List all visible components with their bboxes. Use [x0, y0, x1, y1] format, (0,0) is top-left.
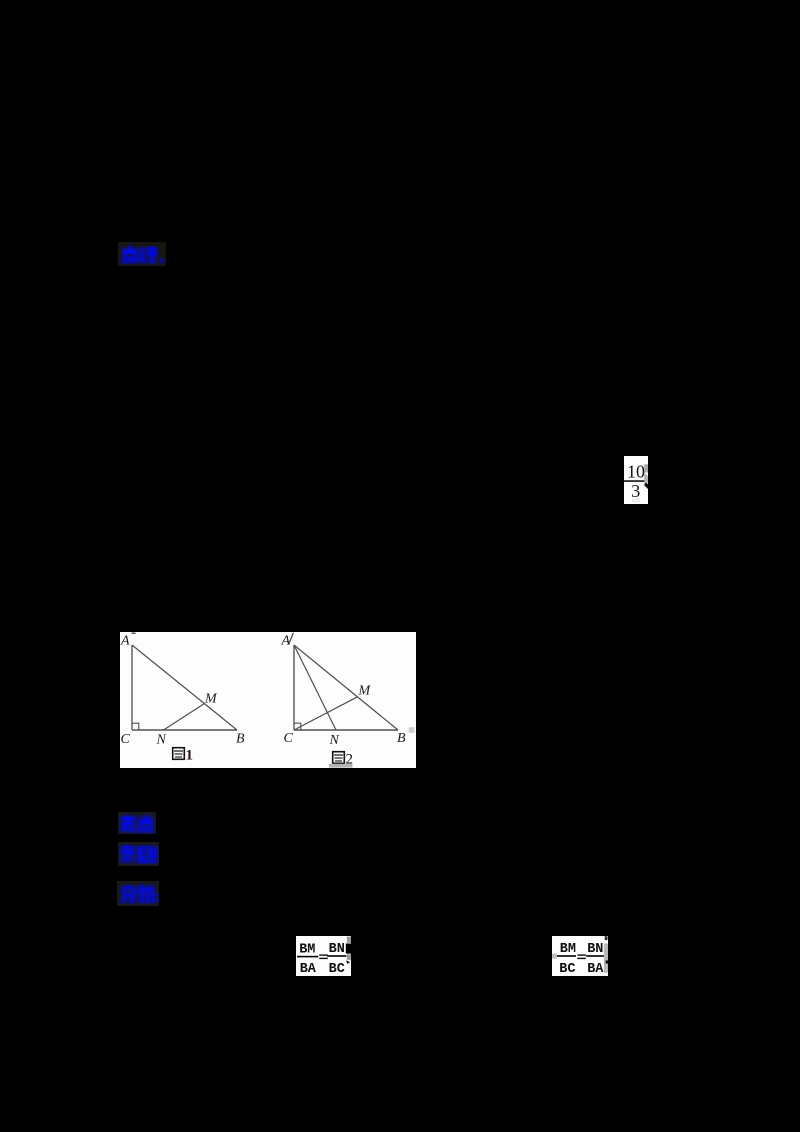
fig2 caption 图2	[333, 752, 353, 768]
fig2 hypotenuse AB	[294, 645, 398, 730]
svg-text:M: M	[358, 684, 372, 699]
svg-text:10: 10	[627, 462, 645, 482]
edge artifacts	[347, 937, 351, 943]
fraction bar left	[297, 956, 318, 958]
fig1 stray tick at top	[132, 632, 136, 634]
fig1 caption 图1	[173, 748, 193, 764]
fig1 side AC	[131, 645, 133, 730]
svg-text:N: N	[329, 733, 340, 748]
svg-text:BC: BC	[329, 962, 345, 976]
svg-text:B: B	[397, 731, 406, 746]
fraction bar right	[327, 955, 346, 957]
svg-text:3: 3	[631, 481, 640, 501]
blue label 专题	[118, 842, 159, 866]
svg-text:C: C	[284, 731, 294, 746]
svg-text:A: A	[281, 634, 291, 649]
svg-text:BA: BA	[587, 962, 604, 976]
faint artifact	[632, 498, 640, 502]
equals sign	[577, 954, 586, 955]
fig2 gray square right of B	[409, 727, 415, 733]
inline equation image: fraction 10/3	[624, 456, 648, 504]
svg-text:BM: BM	[299, 943, 315, 958]
fraction bar left	[557, 955, 576, 957]
fig1 hypotenuse AB	[132, 645, 237, 730]
svg-text:BA: BA	[300, 962, 317, 976]
svg-text:BM: BM	[560, 942, 576, 957]
blue label 分析：	[117, 881, 159, 906]
equation image: BM/BA = BN/BC	[296, 936, 351, 976]
fig2 side AC	[293, 645, 295, 730]
svg-text:M: M	[204, 692, 218, 707]
svg-text:N: N	[156, 733, 167, 748]
fig2 cevian CM	[294, 697, 358, 730]
blue label "点评：" (previous problem footer)	[118, 242, 166, 266]
fig1 side CB	[132, 729, 237, 731]
fig1 segment NM	[164, 704, 205, 731]
svg-text:BC: BC	[559, 962, 575, 976]
svg-text:A: A	[120, 634, 130, 649]
svg-text:1: 1	[186, 748, 194, 764]
mouse cursor fragment	[644, 464, 648, 472]
svg-text:BN: BN	[587, 942, 603, 957]
fig2 stray tick above A	[289, 633, 294, 644]
fig2 right-angle mark at C	[294, 723, 301, 730]
fraction bar	[624, 480, 648, 482]
figure image box with 图1 and 图2	[120, 632, 416, 768]
blue label 考点	[118, 812, 156, 834]
svg-text:C: C	[121, 732, 131, 747]
edge artifacts	[604, 944, 608, 973]
fig1 right-angle mark at C	[132, 723, 139, 730]
equation image: BM/BC = BN/BA	[552, 936, 608, 976]
fig2 cevian AN	[294, 645, 336, 730]
fig2 side CB	[294, 729, 398, 731]
fraction bar right	[586, 955, 605, 957]
gray highlight bar under 图2	[329, 764, 353, 768]
svg-text:B: B	[236, 732, 245, 747]
svg-text:BN: BN	[329, 942, 345, 957]
equals sign	[319, 954, 328, 955]
